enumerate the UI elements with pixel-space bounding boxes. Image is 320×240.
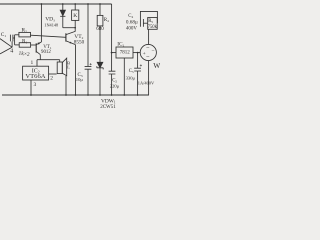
IC2 music chip box — [23, 66, 49, 80]
svg-text:~: ~ — [146, 46, 149, 52]
svg-text:C5: C5 — [129, 69, 134, 74]
svg-text:W: W — [153, 61, 160, 70]
wire IC2 pin2 to speaker — [49, 73, 57, 75]
svg-text:−: − — [151, 48, 154, 54]
wire top +12V rail — [0, 3, 112, 5]
svg-text:1A/400V: 1A/400V — [138, 80, 155, 85]
svg-text:K: K — [73, 13, 77, 19]
svg-text:VT66A: VT66A — [25, 73, 45, 80]
wire IC2 pin3 to ground — [30, 80, 32, 95]
svg-text:680: 680 — [96, 27, 104, 32]
resistor R5 box — [148, 18, 158, 30]
wire node under VD3/K — [63, 27, 75, 29]
capacitor C2 plates — [109, 71, 116, 74]
svg-text:9012: 9012 — [41, 50, 51, 55]
transistor Q2 VT2 8550 — [65, 33, 67, 41]
diode VD3 — [62, 4, 64, 28]
svg-text:220μ: 220μ — [110, 83, 120, 88]
svg-text:R4: R4 — [104, 18, 109, 23]
capacitor C5 branch — [137, 53, 139, 95]
svg-text:4: 4 — [10, 49, 13, 55]
svg-text:+: + — [143, 51, 146, 57]
svg-text:400V: 400V — [126, 27, 137, 32]
svg-text:2: 2 — [50, 76, 53, 82]
paper background — [0, 0, 160, 110]
resistor R4 — [99, 4, 101, 62]
relay K — [74, 4, 76, 10]
svg-text:VDW1: VDW1 — [101, 98, 116, 104]
wire 7812 output riser / C2 branch vertical — [111, 4, 113, 95]
junction dots — [30, 3, 138, 96]
wire VT2 emitter to ground rail — [75, 45, 77, 95]
wire VT1 emitter riser — [40, 4, 42, 42]
svg-text:7812: 7812 — [120, 51, 131, 56]
transistor Q1 VT1 9012 — [35, 43, 37, 52]
svg-text:330μ: 330μ — [126, 76, 136, 81]
loudspeaker BL — [59, 60, 61, 62]
svg-text:8550: 8550 — [74, 39, 85, 45]
svg-text:L: L — [67, 64, 70, 69]
capacitor C3 branch — [87, 4, 89, 95]
wire joining R1/R2 left ends — [14, 35, 16, 45]
svg-text:2CW51: 2CW51 — [100, 105, 116, 110]
svg-text:3: 3 — [34, 82, 37, 88]
svg-text:750k: 750k — [148, 25, 158, 30]
wire ground bottom rail — [2, 94, 149, 96]
svg-text:0.68μ: 0.68μ — [126, 19, 138, 25]
wire VT1 collector drop — [39, 55, 41, 60]
bridge rectifier — [140, 44, 156, 60]
capacitor C1 — [10, 35, 13, 42]
regulator U1 7812 — [116, 47, 133, 58]
resistor R2 — [19, 32, 31, 37]
svg-text:1: 1 — [31, 60, 34, 66]
wire input leads converging — [0, 39, 12, 54]
svg-text:10μ: 10μ — [76, 77, 84, 82]
svg-text:R5: R5 — [148, 19, 153, 24]
wire IC2 pin1 — [36, 60, 38, 66]
zener diode VDW 2CW51 — [97, 62, 103, 68]
resistor R1 — [19, 43, 30, 48]
svg-text:~: ~ — [146, 55, 149, 61]
svg-text:1N4148: 1N4148 — [44, 23, 58, 28]
capacitor C4 with parallel loop — [140, 11, 157, 23]
